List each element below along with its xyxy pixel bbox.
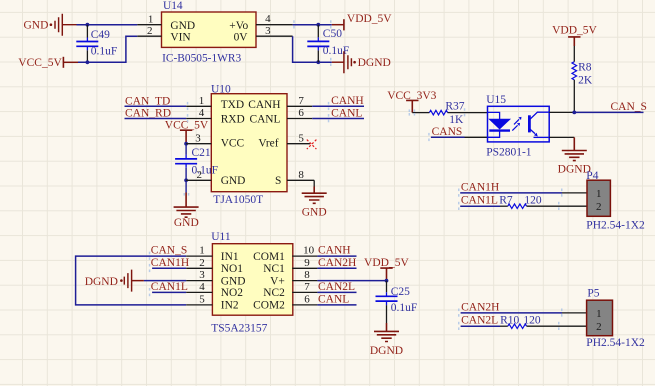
wire CANS [431,136,465,138]
svg-text:2K: 2K [578,74,593,86]
pin 2 P4 [562,205,587,207]
wire CAN1L to R7 [460,205,500,207]
svg-text:5: 5 [298,132,304,144]
wire R37 to U15 pin1 [448,112,488,114]
svg-text:2: 2 [147,25,153,37]
pin 9 U11 [292,267,317,269]
junction node CAN_S [572,111,576,115]
wire CAN2L pin7 [317,291,356,293]
connector P5 [586,287,645,349]
svg-text:GND: GND [174,217,199,229]
pin 1 P4 [562,192,587,194]
svg-text:1: 1 [199,95,205,107]
svg-text:CAN1L: CAN1L [461,195,498,207]
net anchor marks (pale blue) [149,20,563,330]
junction node pin2 [184,178,188,182]
svg-text:P5: P5 [587,287,599,299]
svg-text:CAN1H: CAN1H [151,257,189,269]
pin 3 U15 [549,136,574,138]
svg-text:2: 2 [199,257,205,269]
svg-text:R10: R10 [500,315,519,327]
svg-text:P4: P4 [586,170,598,182]
power ground DGND (below C25) [370,323,403,357]
power port VCC_5V (above U10 pin3) [165,119,209,143]
svg-text:GND: GND [221,175,246,187]
svg-text:CAN1L: CAN1L [151,281,188,293]
connector P4 [586,170,645,232]
svg-text:1: 1 [199,245,205,257]
svg-text:DGND: DGND [85,276,118,288]
svg-text:CANL: CANL [249,113,280,125]
svg-text:IN2: IN2 [221,300,239,312]
junction [86,60,90,64]
svg-text:CAN2L: CAN2L [318,281,355,293]
capacitor C21 [175,144,218,181]
wire V+ to VDD_5V [317,280,386,282]
svg-text:6: 6 [298,107,304,119]
svg-text:9: 9 [304,257,310,269]
svg-text:VCC: VCC [221,137,244,149]
svg-text:CAN1H: CAN1H [461,181,499,193]
svg-text:0.1uF: 0.1uF [192,165,219,177]
svg-text:0V: 0V [234,32,249,44]
svg-text:DGND: DGND [358,57,391,69]
wire CANL pin6 [317,304,356,306]
svg-text:NO1: NO1 [221,263,243,275]
wire CAN1H [152,267,186,269]
power port VCC_5V (bottom-left) [18,57,78,69]
svg-text:NC1: NC1 [263,263,285,275]
svg-text:CAN2H: CAN2H [318,257,356,269]
wire VCC_5V net to C49 bottom and U14 pin2 [78,36,137,62]
pin 4 U14 [256,24,293,26]
svg-text:10: 10 [303,245,315,257]
IC U10 body [211,84,287,206]
svg-text:7: 7 [298,95,304,107]
svg-text:4: 4 [265,13,271,25]
svg-text:120: 120 [524,195,542,207]
svg-text:U15: U15 [486,94,506,106]
svg-text:C25: C25 [391,286,410,298]
wire CAN1L [152,291,186,293]
power ground DGND (left of U11 pin3) [85,270,144,292]
svg-text:1: 1 [148,13,154,25]
svg-text:CAN2H: CAN2H [461,301,499,313]
power ground GND (top-left) [50,14,77,36]
pin 2 U10 [186,179,211,181]
svg-text:GND: GND [302,207,327,219]
pin 7 U10 [287,105,312,107]
capacitor C49 [76,25,117,63]
capacitor C50 [307,25,349,63]
svg-text:GND: GND [170,20,195,32]
wire 0V net [293,36,332,62]
wire CAN2H to P5 pin1 [461,312,562,314]
svg-text:2: 2 [596,321,602,333]
wire GND net to U14 pin1 and C49 top [77,24,138,26]
svg-text:NC2: NC2 [263,287,285,299]
pin 3 U14 [256,35,293,37]
pin 2 U11 [186,267,212,269]
pin 1 U10 [186,105,211,107]
junction node pin3 [184,142,188,146]
wire CANH [312,105,364,107]
svg-text:DGND: DGND [370,345,403,357]
wire CAN2L to R10 [461,325,500,327]
svg-text:3: 3 [199,269,205,281]
svg-text:PH2.54-1X2: PH2.54-1X2 [586,220,645,232]
svg-text:1K: 1K [449,114,464,126]
svg-text:CANS: CANS [432,126,463,138]
no-connect X pin5 [307,140,317,150]
svg-text:VDD_5V: VDD_5V [552,24,597,36]
svg-text:TJA1050T: TJA1050T [213,194,263,206]
junction [86,23,90,27]
junction [316,23,320,27]
svg-text:CAN_S: CAN_S [151,245,187,257]
wire +Vo net [293,24,332,26]
svg-text:TS5A23157: TS5A23157 [211,323,267,335]
wire CAN_RD [125,118,187,120]
svg-text:8: 8 [298,169,304,181]
svg-text:CANH: CANH [318,245,351,257]
svg-text:6: 6 [304,294,310,306]
pin 4 U15 [549,111,574,113]
svg-text:VDD_5V: VDD_5V [364,257,409,269]
pin 7 U11 [292,291,317,293]
svg-text:R37: R37 [445,100,464,112]
svg-text:S: S [275,175,281,187]
svg-text:120: 120 [523,315,541,327]
junction [316,60,320,64]
power port VCC_3V3 [387,90,436,113]
svg-text:1: 1 [596,308,602,320]
pin 2 P5 [562,325,587,327]
opto-coupler U15 PS2801-1 [488,106,550,142]
svg-text:COM1: COM1 [253,251,285,263]
svg-text:CANH: CANH [248,99,280,111]
svg-text:IC-B0505-1WR3: IC-B0505-1WR3 [162,52,241,64]
svg-text:VDD_5V: VDD_5V [347,13,392,25]
svg-text:0.1uF: 0.1uF [391,302,418,314]
pin 3 U11 [186,280,212,282]
pin 2 U14 [137,35,161,37]
wire DGND to pin3 [144,280,186,282]
svg-text:4: 4 [199,281,205,293]
wire CAN2H pin9 [317,267,356,269]
pin 1 P5 [562,312,587,314]
svg-text:U14: U14 [163,0,183,12]
capacitor C25 [376,281,418,323]
svg-text:U11: U11 [211,231,231,243]
pin 2 U15 [465,136,488,138]
svg-text:C21: C21 [192,147,211,159]
ground GND (below U10) [174,180,199,229]
pin 1 U14 [137,24,161,26]
junction node V+ [385,279,389,283]
svg-text:VIN: VIN [170,32,190,44]
pin 4 U10 [186,118,211,120]
svg-text:V+: V+ [270,275,285,287]
pin 8 U11 [292,280,317,282]
power ground DGND (right of U15) [558,137,591,175]
power port VDD_5V (above C25) [364,257,409,281]
power port VDD_5V (right of C50) [332,13,393,30]
resistor R8 [572,46,593,112]
svg-text:VCC_5V: VCC_5V [18,57,62,69]
pin 6 U10 [287,118,312,120]
svg-text:U10: U10 [211,84,231,96]
svg-text:PH2.54-1X2: PH2.54-1X2 [586,337,645,349]
svg-text:2: 2 [596,201,602,213]
svg-text:PS2801-1: PS2801-1 [486,147,532,159]
svg-text:8: 8 [304,269,310,281]
IC U11 body [211,231,293,335]
svg-text:RXD: RXD [221,113,245,125]
svg-text:CANL: CANL [318,294,349,306]
pin 8 U10 [287,179,314,181]
pin 5 U10 [287,143,310,145]
power ground DGND (right of C50) [332,51,356,73]
pin 1 U11 [186,255,212,257]
svg-text:Vref: Vref [258,137,278,149]
wire CAN_TD [125,105,187,107]
svg-text:R8: R8 [578,62,592,74]
svg-text:+Vo: +Vo [229,20,248,32]
svg-text:CAN_S: CAN_S [611,101,647,113]
resistor R10 [500,315,562,329]
IC U14 body [162,0,257,64]
svg-text:NO2: NO2 [221,287,243,299]
svg-text:C50: C50 [323,28,342,40]
pin 3 U10 [186,143,211,145]
pin 10 U11 [292,255,317,257]
svg-text:GND: GND [221,275,246,287]
svg-text:1: 1 [596,188,602,200]
svg-text:CAN2L: CAN2L [461,315,498,327]
svg-text:TXD: TXD [221,99,244,111]
wire IN1-IN2 tie loop [76,256,187,305]
svg-text:C49: C49 [91,29,110,41]
svg-text:7: 7 [304,281,310,293]
wire CANL [312,118,364,120]
svg-text:3: 3 [195,132,201,144]
svg-text:IN1: IN1 [221,251,239,263]
svg-text:COM2: COM2 [253,300,285,312]
pin 4 U11 [186,291,212,293]
svg-text:3: 3 [265,25,271,37]
pin 6 U11 [292,304,317,306]
power port VDD_5V (above R8) [552,24,597,46]
svg-text:5: 5 [199,294,205,306]
svg-text:GND: GND [24,20,49,32]
pin 5 U11 [186,304,212,306]
svg-text:0.1uF: 0.1uF [91,46,118,58]
svg-text:4: 4 [199,107,205,119]
wire CAN1H to P4 pin1 [460,192,562,194]
ground GND (U10 pin8) [302,180,327,218]
resistor R37 [429,100,464,126]
resistor R7 [499,195,562,209]
svg-text:2: 2 [197,169,203,181]
svg-text:CANH: CANH [331,95,364,107]
wire CANH pin10 [317,255,356,257]
wire VCC_3V3 to R37 [412,112,429,114]
wire CAN_S [574,111,643,113]
svg-text:R7: R7 [499,195,513,207]
svg-text:0.1uF: 0.1uF [323,45,350,57]
